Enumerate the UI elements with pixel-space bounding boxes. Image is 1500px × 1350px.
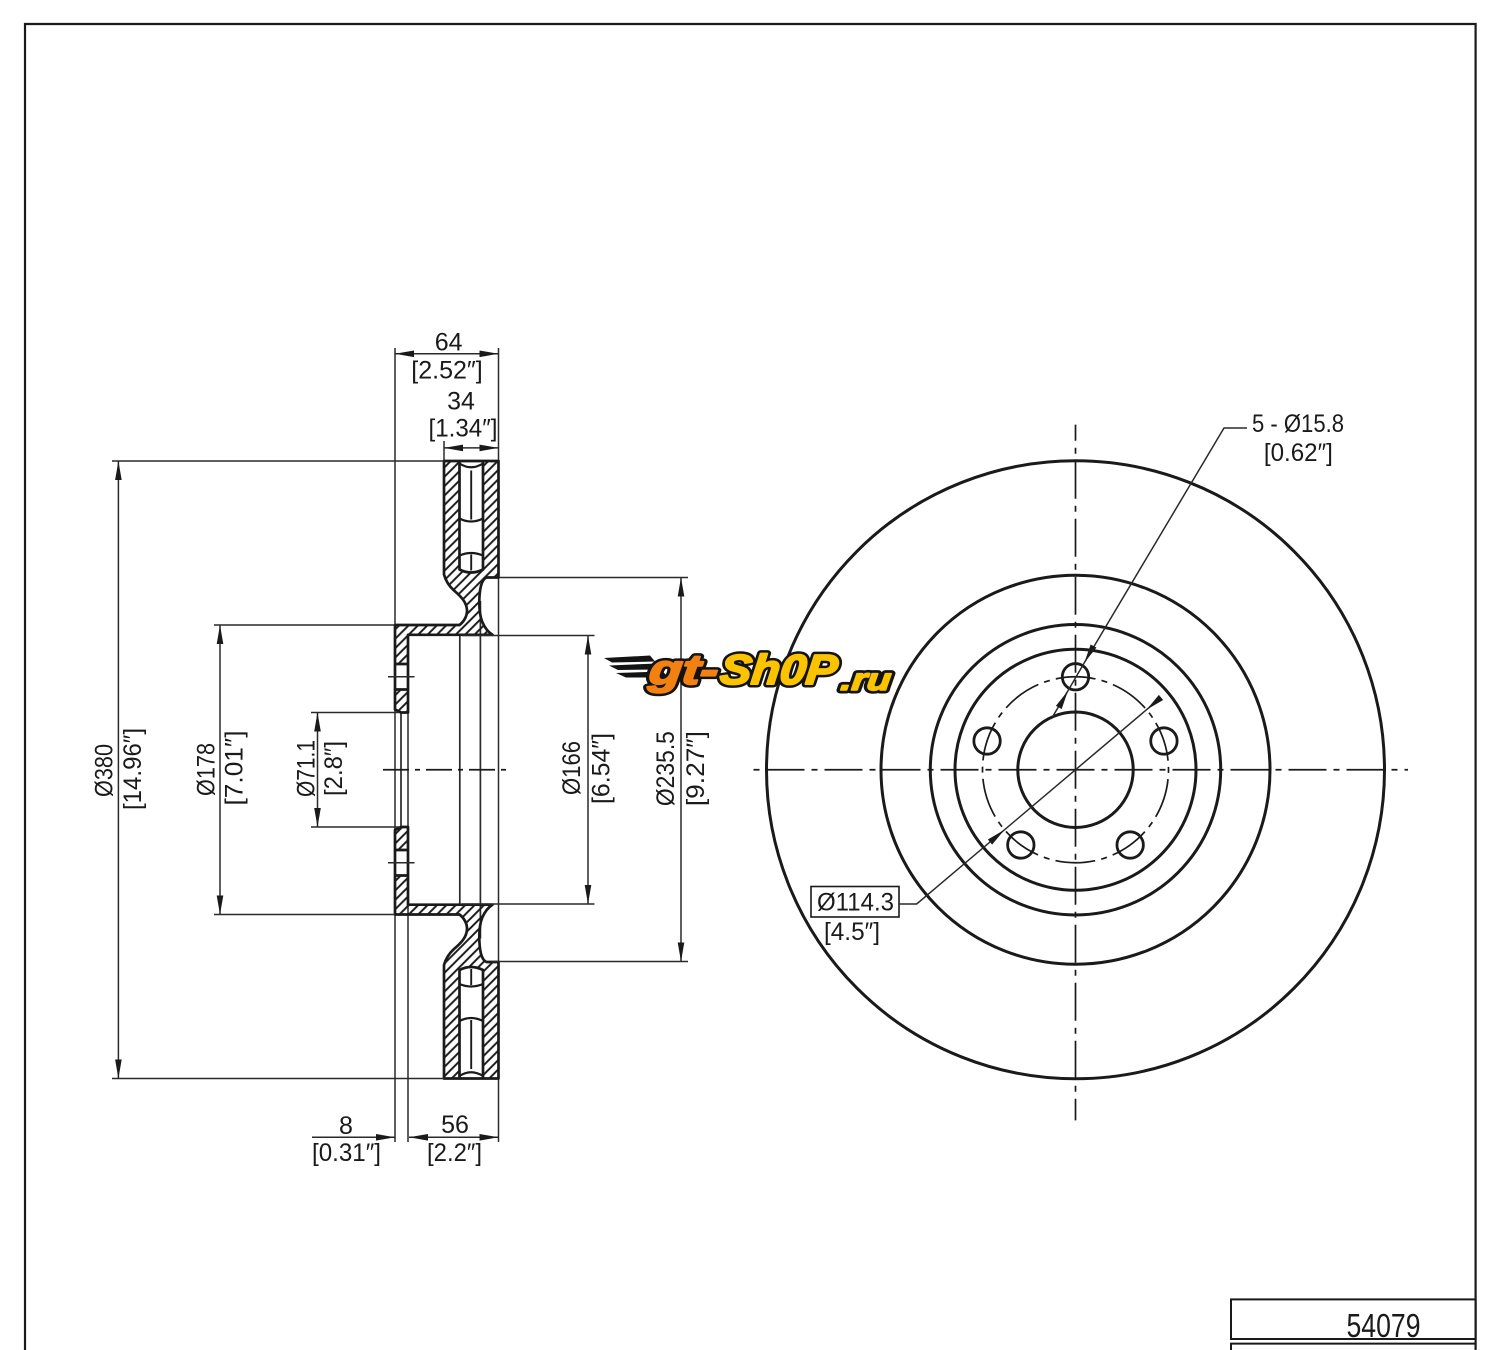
svg-text:.ru: .ru [839,662,893,697]
ext line disc left face x=444 (34 dim) [443,441,445,461]
dim 235.5 [680,578,682,962]
svg-text:[2.52″]: [2.52″] [411,357,483,385]
interior projection line x=480.4 [479,601,481,939]
dim 56 [409,1136,499,1138]
gt-shop.ru text [646,646,893,697]
front view crosshair centerlines [1075,425,1077,1121]
svg-text:56: 56 [441,1111,469,1139]
dim 166 [587,636,589,905]
center bore D71.1 [1018,712,1133,827]
svg-text:[0.62″]: [0.62″] [1264,439,1333,467]
svg-text:Ø71.1: Ø71.1 [293,740,321,797]
bottom half of cross-section profile (mirror of top) [388,827,499,1079]
bolt hole centerline [388,676,415,678]
circle D235.5 [881,575,1270,964]
svg-text:[2.2″]: [2.2″] [427,1139,482,1167]
lower profile: friction ring plates + S-cone + hat (hatched) [395,827,499,1079]
vane bottom curve [460,553,484,556]
ext line disc right face x=498.5 [498,348,500,1142]
svg-text:Ø178: Ø178 [193,743,221,796]
svg-text:Ø114.3: Ø114.3 [817,889,894,917]
vane top curve [460,519,484,522]
vent outlet curve (lower ring) [460,1072,484,1076]
5 bolt holes D15.8 [1062,664,1088,690]
upper profile: friction ring plates + S-cone + hat (hatched) [395,461,499,713]
svg-text:[9.27″]: [9.27″] [682,731,710,806]
dim 34 [444,447,499,449]
outer circle D380 [767,461,1385,1079]
svg-text:64: 64 [435,328,463,356]
svg-text:[1.34″]: [1.34″] [429,415,498,443]
lower bolt hole centerline [388,862,415,864]
svg-text:54079: 54079 [1347,1307,1421,1344]
dim 380 [117,461,119,1079]
vent inlet curve [460,464,484,468]
lower vane center line [470,969,472,1069]
dim 8 [312,1136,395,1138]
svg-text:gt-: gt- [646,646,721,693]
lower vane curve B [460,984,484,987]
svg-text:[14.96″]: [14.96″] [119,728,147,810]
dim 178 [219,625,221,915]
svg-text:Ø380: Ø380 [91,744,119,797]
bolt circle D114.3 dashed [983,677,1169,863]
ext line hat inner face x=408 [407,637,409,1142]
svg-text:[0.31″]: [0.31″] [312,1139,381,1167]
title block row 1 [1231,1299,1476,1339]
svg-text:[4.5″]: [4.5″] [824,918,880,946]
leader for 5-D15.8 [1084,428,1247,663]
title block row 2 (cut off at bottom) [1231,1344,1476,1350]
svg-text:8: 8 [339,1112,353,1140]
svg-text:[7.01″]: [7.01″] [221,731,249,806]
leader for D114.3 [899,700,1158,904]
speed lines [604,656,655,663]
hub circle [955,649,1196,890]
bore chamfer projection line x=401 [400,713,402,828]
dim 71.1 [317,713,319,828]
svg-text:Ø166: Ø166 [558,741,586,795]
top half of cross-section profile (hatched) [388,461,499,713]
svg-text:Sh0P: Sh0P [718,646,841,693]
ext line hat outer face x=395 [394,348,396,1142]
circle D178 [930,625,1220,915]
dim 64 [395,353,499,355]
svg-text:[2.8″]: [2.8″] [320,741,348,796]
section axis centerline [383,769,506,771]
svg-text:5 - Ø15.8: 5 - Ø15.8 [1252,410,1344,438]
svg-text:34: 34 [447,387,475,415]
lower vane curve A [460,1018,484,1021]
interior projection line x=459.8 [459,636,461,904]
svg-text:[6.54″]: [6.54″] [588,733,616,804]
vane center line [470,471,472,571]
svg-text:Ø235.5: Ø235.5 [652,731,680,806]
